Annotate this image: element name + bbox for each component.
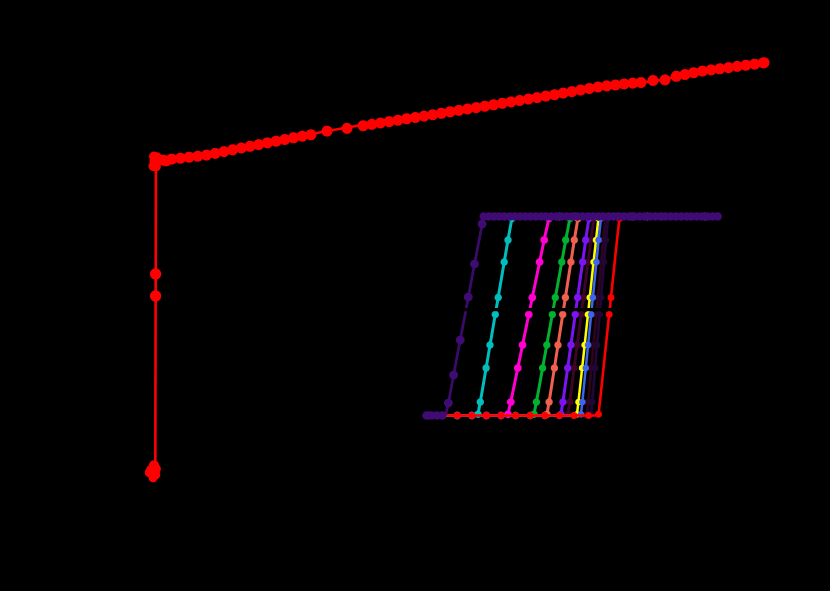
maroon sigmoid [425, 213, 720, 419]
two markers on vertical segment [150, 268, 161, 301]
main red curve: rising branch [158, 64, 765, 162]
marker cluster at top of vertical drop [148, 152, 161, 172]
main red curve markers (rising branch) [158, 57, 770, 166]
green sigmoid [424, 213, 719, 419]
cyan sigmoid [424, 213, 719, 419]
magenta sigmoid [424, 213, 719, 420]
black threshold level line (crosses inset curves) [423, 308, 723, 311]
violet sigmoid [424, 213, 719, 419]
dark-indigo sigmoid [425, 213, 720, 419]
red sigmoid [425, 213, 720, 419]
main red curve: vertical retention drop [154, 163, 157, 468]
salmon sigmoid [424, 213, 719, 419]
marker cluster at bottom of vertical drop [145, 460, 161, 482]
indigo sigmoid (topmost, dense round markers) [422, 212, 722, 419]
dark-maroon sigmoid [425, 213, 720, 419]
blue sigmoid [425, 213, 720, 419]
yellow sigmoid [425, 213, 720, 419]
